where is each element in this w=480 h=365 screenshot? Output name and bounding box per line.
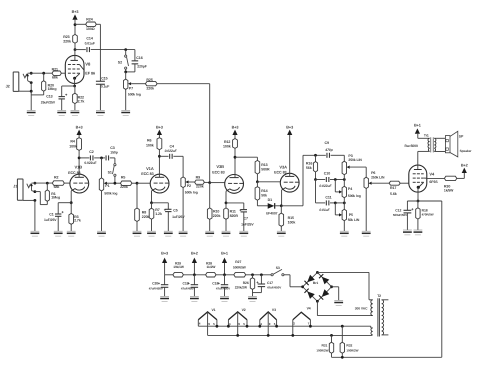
svg-text:R27: R27 (235, 260, 241, 264)
resistor R10 (209, 183, 211, 208)
svg-text:P7: P7 (129, 86, 133, 90)
ground (C18) (220, 295, 229, 297)
diode Br1 top-left (307, 275, 315, 283)
diode Br1 top-right (322, 277, 330, 285)
node V1 pin5 (216, 325, 219, 328)
node J1 sleeve (34, 199, 37, 202)
ground (R7) (147, 230, 156, 232)
svg-text:100k: 100k (223, 145, 231, 149)
wire P1 wiper (107, 182, 121, 184)
node C17 tap (260, 273, 263, 276)
resistor R30 screen (427, 177, 445, 179)
capacitor C14 (75, 49, 86, 51)
node R16 top (314, 154, 317, 157)
wire P3 wiper to P6 (350, 166, 367, 168)
svg-text:47uF/450V: 47uF/450V (216, 286, 230, 290)
svg-text:R21: R21 (52, 68, 58, 72)
resistor R13 (256, 157, 258, 160)
svg-text:P5: P5 (349, 213, 353, 217)
node V1B cathode junction (70, 201, 73, 204)
resistor R2 (52, 181, 64, 186)
wire J1 ground (34, 200, 36, 231)
svg-text:R25: R25 (146, 78, 152, 82)
svg-text:R15: R15 (288, 216, 294, 220)
svg-text:250k LIN: 250k LIN (371, 176, 385, 180)
wire R25 to second-stage grid (157, 83, 210, 85)
capacitor C3 (105, 155, 107, 160)
svg-text:C4: C4 (170, 144, 175, 148)
resistor R1 (46, 183, 48, 190)
wire cathode to heater reference (441, 201, 443, 357)
svg-text:V3A: V3A (279, 164, 287, 169)
svg-text:R5: R5 (121, 176, 126, 180)
svg-text:ECC 83: ECC 83 (212, 171, 224, 175)
node B+1 rail (223, 273, 226, 276)
node bridge - (330, 285, 333, 288)
capacitor C5 (152, 202, 169, 204)
svg-text:500R: 500R (261, 168, 270, 172)
switch S2 (124, 48, 127, 51)
svg-text:220k: 220k (120, 185, 128, 189)
svg-text:50k LIN: 50k LIN (348, 218, 360, 222)
svg-text:2.7k: 2.7k (78, 99, 85, 103)
capacitor C16 (134, 50, 136, 61)
wire J2 ground (30, 91, 32, 110)
svg-text:0.01uF: 0.01uF (319, 208, 330, 212)
resistor R25 (131, 83, 145, 85)
pentode V8 (EF 86) (65, 55, 84, 83)
svg-text:500uF/50V: 500uF/50V (393, 213, 407, 217)
svg-text:C3: C3 (110, 146, 115, 150)
node J1 tip (34, 182, 37, 185)
resistor R28 (206, 273, 216, 277)
svg-text:1Meg: 1Meg (48, 87, 57, 91)
node V8 plate (74, 48, 77, 51)
svg-text:C11: C11 (325, 196, 331, 200)
svg-text:470p: 470p (324, 148, 332, 152)
wire S3 to bridge (284, 274, 290, 276)
svg-text:220k: 220k (146, 86, 154, 90)
potentiometer P5 mid (343, 203, 345, 209)
wire bridge minus to ground (332, 286, 339, 288)
svg-text:50k: 50k (261, 194, 267, 198)
svg-text:220k: 220k (196, 184, 204, 188)
svg-text:220k: 220k (63, 40, 71, 44)
node V3B plate (234, 156, 237, 159)
capacitor C9 (326, 153, 328, 158)
svg-text:V1B: V1B (75, 165, 83, 170)
svg-text:V3B: V3B (216, 164, 224, 169)
node J1 shorting contact (34, 190, 37, 193)
ground (P1) (97, 230, 106, 232)
capacitor C13 (62, 85, 75, 87)
svg-text:ECC 83: ECC 83 (141, 172, 153, 176)
svg-text:R23: R23 (63, 35, 69, 39)
svg-text:P1: P1 (105, 184, 109, 188)
svg-text:C20: C20 (152, 281, 158, 285)
node V2 pin5 (246, 325, 249, 328)
svg-text:220k/2W: 220k/2W (235, 285, 247, 289)
svg-text:1Meg: 1Meg (51, 196, 60, 200)
potentiometer P2 (182, 156, 184, 177)
resistor R21 (52, 71, 61, 75)
svg-text:C13: C13 (46, 95, 52, 99)
speaker SP (445, 136, 450, 153)
svg-text:100k: 100k (146, 143, 154, 147)
svg-text:500k log: 500k log (128, 93, 141, 97)
svg-text:T2: T2 (377, 294, 381, 298)
ground (R15) (277, 230, 286, 232)
diode D1 (UF4007) (257, 205, 268, 207)
wire B+ rail (165, 274, 173, 276)
resistor R20 (43, 73, 45, 81)
wire cathode follower output (281, 205, 303, 207)
node S2/P7 (124, 71, 127, 74)
wire bridge AC top (317, 271, 369, 273)
wire slope node down (315, 180, 317, 203)
svg-text:100Ω: 100Ω (86, 27, 95, 31)
wire V3B plate to divider (235, 156, 257, 158)
resistor R6 (157, 138, 162, 150)
svg-text:ECC 83: ECC 83 (274, 171, 286, 175)
switch S1 (114, 158, 116, 164)
ground (C1) (54, 230, 63, 232)
heater V1 (198, 312, 217, 320)
wire R24 to C15 (99, 24, 101, 81)
potentiometer P1 (101, 158, 103, 178)
ground (C15) (96, 109, 105, 111)
capacitor C20 (164, 275, 166, 285)
node C2 output (100, 157, 103, 160)
node V1A grid (136, 182, 139, 185)
ground (R22) (71, 109, 80, 111)
node V8 cathode junction (73, 85, 76, 88)
svg-text:Tr1: Tr1 (424, 134, 429, 138)
svg-text:R31: R31 (322, 344, 328, 348)
svg-text:1k/2W: 1k/2W (207, 265, 216, 269)
resistor R26 (252, 275, 254, 278)
resistor R16 (315, 155, 317, 161)
resistor R11 (225, 203, 227, 208)
svg-text:R24: R24 (86, 18, 92, 22)
node bridge top AC (316, 271, 319, 274)
svg-text:500k log: 500k log (185, 190, 198, 194)
ground (R11) (222, 230, 231, 232)
resistor R5 (120, 181, 131, 185)
svg-text:820R: 820R (230, 214, 239, 218)
resistor R9 (189, 181, 195, 183)
svg-text:0.1uF: 0.1uF (101, 85, 109, 89)
svg-text:0.01uF: 0.01uF (85, 42, 95, 46)
svg-text:68k: 68k (54, 185, 60, 189)
wire V3A cathode (281, 190, 283, 206)
ground (J1) (31, 230, 40, 232)
svg-text:R26: R26 (243, 281, 249, 285)
resistor R22 (74, 86, 76, 93)
svg-text:6P3S: 6P3S (429, 180, 438, 184)
ground (P7) (121, 109, 130, 111)
svg-text:R4: R4 (70, 140, 75, 144)
svg-text:V2: V2 (242, 308, 246, 312)
svg-text:C7: C7 (244, 217, 249, 221)
svg-text:C15: C15 (101, 77, 107, 81)
svg-text:0.022uF: 0.022uF (319, 184, 332, 188)
svg-text:220k: 220k (213, 214, 221, 218)
node S1 join (114, 182, 117, 185)
node V2 pin4 (227, 325, 230, 328)
svg-text:C9: C9 (325, 141, 330, 145)
heater V3 (260, 312, 277, 320)
capacitor C7 (226, 202, 244, 204)
svg-text:R10: R10 (213, 210, 219, 214)
wire V1A cathode (151, 191, 153, 203)
capacitor C10 (316, 179, 326, 181)
svg-text:150p: 150p (110, 150, 117, 154)
svg-text:2.7k: 2.7k (74, 219, 81, 223)
svg-text:C14: C14 (86, 37, 92, 41)
resistor R24 (75, 23, 86, 25)
svg-text:EF 86: EF 86 (85, 71, 95, 75)
resistor R31 humdinger (330, 334, 333, 337)
ground (C12) (403, 229, 412, 231)
resistor R17 (372, 182, 390, 184)
capacitor C12 (406, 201, 408, 210)
resistor R3 (70, 203, 72, 214)
svg-text:Ra=5000: Ra=5000 (405, 144, 418, 148)
svg-text:300 VAC: 300 VAC (355, 306, 368, 310)
wire heater bus B (208, 334, 372, 336)
svg-text:B+3: B+3 (286, 126, 293, 130)
svg-text:C2: C2 (89, 150, 94, 154)
capacitor C17 (260, 275, 262, 284)
svg-text:D1: D1 (268, 198, 273, 202)
ground (C5) (164, 230, 173, 232)
node R1 tap (46, 182, 49, 185)
svg-text:0.022uF: 0.022uF (165, 149, 178, 153)
svg-text:C17: C17 (267, 281, 273, 285)
svg-text:1uF/25V: 1uF/25V (241, 222, 254, 226)
capacitor C18 (224, 275, 226, 285)
wire heater bus A (198, 325, 370, 327)
svg-text:V8: V8 (85, 61, 91, 66)
node B+2 rail (193, 273, 196, 276)
svg-text:V3: V3 (272, 308, 276, 312)
resistor R7 (151, 203, 153, 208)
svg-text:47uF/450V: 47uF/450V (181, 286, 195, 290)
svg-text:C5: C5 (173, 209, 178, 213)
svg-text:56k: 56k (306, 166, 312, 170)
node V4 pin2 (291, 334, 294, 337)
ground (P5) (340, 230, 349, 232)
svg-text:470R/5W: 470R/5W (422, 213, 434, 217)
node V4 cathode (417, 200, 420, 203)
resistor R8 (136, 183, 138, 208)
node V4 pin7 (309, 325, 312, 328)
wire V3B cathode (225, 191, 227, 203)
svg-text:UF4007: UF4007 (266, 212, 278, 216)
svg-text:25uF/25V: 25uF/25V (41, 101, 56, 105)
wire to V3A grid (257, 181, 280, 183)
potentiometer P6 master volume (364, 177, 368, 188)
svg-text:100R/2W: 100R/2W (316, 348, 328, 352)
svg-text:C19: C19 (183, 281, 189, 285)
svg-text:B+3: B+3 (72, 10, 79, 14)
svg-text:S3: S3 (276, 266, 280, 270)
svg-text:100R/2W: 100R/2W (346, 348, 358, 352)
svg-text:B+1: B+1 (221, 252, 228, 256)
node R26 tap (251, 273, 254, 276)
node V8 supply junction (74, 23, 77, 26)
bridge rectifier Br1 (303, 272, 332, 301)
svg-text:ECC 83: ECC 83 (68, 171, 80, 175)
svg-text:R17: R17 (390, 186, 396, 190)
svg-text:Br1: Br1 (313, 281, 319, 285)
svg-text:68k: 68k (52, 76, 58, 80)
resistor R14 (256, 182, 258, 187)
wire J1 contact to R1 (35, 191, 40, 193)
svg-text:500k log: 500k log (348, 194, 361, 198)
node V3B cathode junction (225, 202, 228, 205)
svg-text:B+1: B+1 (414, 124, 421, 128)
node P5 wiper junction (334, 202, 337, 205)
svg-text:C1: C1 (49, 212, 54, 216)
svg-text:J2: J2 (6, 85, 10, 89)
svg-text:220k: 220k (142, 215, 150, 219)
resistor R32 humdinger (341, 325, 344, 328)
potentiometer P3 treble (343, 155, 345, 161)
svg-text:100k: 100k (69, 144, 77, 148)
wire speaker leads (434, 137, 445, 139)
resistor R18 (417, 201, 419, 208)
capacitor C2 (79, 157, 89, 159)
svg-text:R12: R12 (224, 140, 230, 144)
node V3 pin4 (258, 325, 261, 328)
ground (R3) (67, 230, 76, 232)
svg-text:250k LIN: 250k LIN (348, 158, 362, 162)
wire bridge AC bottom (316, 301, 318, 315)
ground (C13) (57, 109, 66, 111)
svg-text:R9: R9 (196, 176, 201, 180)
ground (P6) (362, 230, 371, 232)
svg-text:SP: SP (459, 134, 464, 138)
svg-text:R6: R6 (147, 139, 152, 143)
wire J1 grid line (32, 182, 53, 184)
svg-text:R16: R16 (306, 161, 312, 165)
ground (R10) (205, 230, 214, 232)
wire T2 mains leads (382, 299, 389, 301)
wire to V3B grid (210, 182, 225, 184)
svg-text:1k/5W: 1k/5W (444, 188, 454, 192)
node J2 sleeve (30, 90, 33, 93)
svg-text:1uF/25V: 1uF/25V (44, 218, 57, 222)
node V3A cathode junction (280, 204, 283, 207)
svg-text:B+2: B+2 (191, 252, 198, 256)
wire heater reference bus (332, 356, 442, 358)
switch S3 standby (271, 274, 273, 276)
svg-text:R8: R8 (142, 210, 147, 214)
ground (R26) (248, 295, 257, 297)
svg-text:47uF/450V: 47uF/450V (267, 285, 281, 289)
capacitor C11 (316, 202, 326, 204)
svg-text:C16: C16 (136, 56, 142, 60)
resistor R12 (233, 139, 238, 149)
node V3 pin5 (275, 325, 278, 328)
wire V4 cathode bus (407, 200, 441, 202)
ground (P2) (179, 230, 188, 232)
svg-text:B+2: B+2 (461, 163, 468, 167)
ground (bridge) (334, 299, 343, 301)
svg-text:V1A: V1A (146, 166, 154, 171)
wire to V1A grid (137, 182, 150, 184)
svg-text:V4: V4 (307, 307, 311, 311)
svg-text:B+3: B+3 (156, 126, 163, 130)
ground (R18) (414, 229, 423, 231)
svg-text:V1: V1 (212, 308, 216, 312)
svg-text:B+3: B+3 (76, 126, 83, 130)
resistor R4 (77, 138, 82, 151)
svg-text:Speaker: Speaker (460, 149, 473, 153)
node bridge + (301, 285, 304, 288)
svg-text:C18: C18 (212, 281, 218, 285)
resistor R29 (173, 273, 184, 277)
triode V1B (ECC 83) (70, 174, 89, 193)
svg-text:S2: S2 (118, 61, 122, 65)
svg-text:P6: P6 (371, 171, 375, 175)
wire J2 grid line (28, 72, 52, 74)
node P3 bottom (343, 178, 346, 181)
node slope junction (314, 178, 317, 181)
node V2 pin9 (236, 334, 239, 337)
capacitor C1 (58, 202, 71, 204)
node R20 tap (42, 72, 45, 75)
svg-text:100k: 100k (288, 221, 296, 225)
svg-text:R13: R13 (261, 163, 267, 167)
svg-text:0.022uF: 0.022uF (84, 161, 96, 165)
node J2 tip (30, 72, 33, 75)
node V1B plate (78, 157, 81, 160)
diode Br1 bottom-right (322, 289, 330, 297)
svg-text:J1: J1 (13, 184, 17, 188)
svg-text:1.2k: 1.2k (155, 212, 162, 216)
svg-text:47uF/450V: 47uF/450V (149, 286, 163, 290)
triode V1A (ECC 83) (150, 174, 169, 193)
node P4 wiper junction (334, 178, 337, 181)
heater V2 (228, 312, 247, 320)
diode Br1 bottom-left (307, 291, 315, 299)
node P4 bottom (343, 202, 346, 205)
node V1A cathode junction (150, 201, 153, 204)
svg-text:220pF: 220pF (137, 64, 146, 68)
capacitor C19 (193, 275, 195, 285)
svg-text:C10: C10 (324, 172, 330, 176)
node V1A plate (158, 155, 161, 158)
svg-text:500R/5W: 500R/5W (233, 266, 246, 270)
ground (C20) (160, 295, 169, 297)
resistor R23 (73, 34, 78, 43)
heater V4 (293, 312, 311, 320)
triode V3A (ECC 83) cathode follower (280, 173, 299, 192)
node J2 shorting contact (30, 81, 33, 84)
svg-text:10k/1W: 10k/1W (173, 265, 184, 269)
capacitor C4 (159, 155, 168, 157)
resistor R15 (280, 206, 282, 213)
wire V1B cathode (70, 191, 72, 203)
node bridge bottom AC (316, 300, 319, 303)
ground (J2) (27, 109, 36, 111)
ground (C19) (190, 295, 199, 297)
svg-text:P4: P4 (348, 187, 352, 191)
ground (R8) (133, 230, 142, 232)
